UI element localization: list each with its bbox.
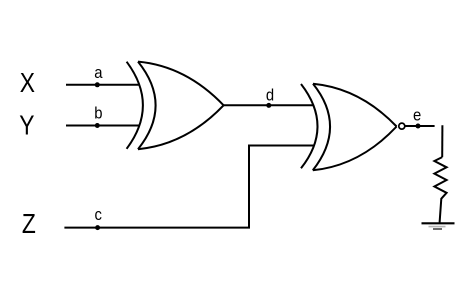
svg-text:c: c	[95, 206, 103, 224]
svg-text:e: e	[413, 107, 422, 125]
svg-text:b: b	[94, 105, 103, 123]
svg-text:a: a	[94, 64, 103, 82]
svg-text:d: d	[266, 87, 274, 105]
svg-text:Y: Y	[19, 110, 34, 140]
svg-text:Z: Z	[22, 209, 36, 239]
svg-text:X: X	[20, 68, 35, 98]
